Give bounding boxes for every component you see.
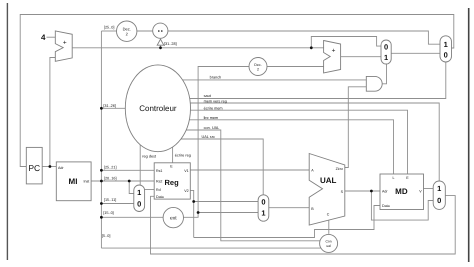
mux M1 (branch mux 0/1) xyxy=(381,40,391,64)
register PC xyxy=(26,147,42,184)
wire [25..21] to Reg Rs1 xyxy=(101,169,154,171)
svg-text:Data: Data xyxy=(382,204,390,208)
wire D2 to adder A2 bottom input xyxy=(267,66,324,68)
wire V2 to MD Data xyxy=(194,206,380,238)
wire Reg V1 to UAL A xyxy=(190,169,309,171)
wire Zero flag to AND gate xyxy=(345,87,367,168)
wire mux M3 output to Reg Rd xyxy=(145,189,155,191)
svg-text:0: 0 xyxy=(437,196,441,205)
junction bus [25..21] xyxy=(100,169,103,172)
svg-text:+: + xyxy=(63,40,67,47)
svg-text:Adr: Adr xyxy=(382,189,388,193)
junction [20..16] to mux M3 xyxy=(128,180,131,183)
wire ext up to shift circle D2 xyxy=(184,67,250,218)
svg-text:[5..0]: [5..0] xyxy=(102,234,110,238)
svg-text:2: 2 xyxy=(257,67,259,71)
wire reg-dest control to mux M3 select xyxy=(139,110,141,185)
wire UAL S bypass to mux M5 input 0 xyxy=(371,191,433,220)
svg-text:Controleur: Controleur xyxy=(139,104,177,113)
wire mux M1 output to mux M2 input 0 xyxy=(391,52,440,54)
ALU control circle Con UAL xyxy=(320,234,338,252)
instruction memory MI xyxy=(56,162,91,201)
svg-text:MD: MD xyxy=(395,187,408,196)
wire adder A2 output to mux M1 input 1 xyxy=(341,56,381,58)
wire ext to mux M4 input 1 xyxy=(198,212,258,214)
svg-text:Dec.: Dec. xyxy=(254,63,261,67)
svg-text:1: 1 xyxy=(384,53,388,62)
wire D1 to concat circle xyxy=(137,30,153,32)
svg-text:[15..0]: [15..0] xyxy=(103,211,114,215)
svg-text:mem vers reg: mem vers reg xyxy=(204,99,227,103)
svg-text:V1: V1 xyxy=(184,169,188,173)
svg-text:[20..16]: [20..16] xyxy=(104,176,117,180)
AND gate xyxy=(366,76,382,91)
wire PC+4 jog into mux M1 input 0 xyxy=(311,37,381,48)
junction PC+4 at mux jog xyxy=(310,46,313,49)
svg-text:0: 0 xyxy=(137,199,141,208)
svg-text:branch: branch xyxy=(210,76,222,80)
svg-text:[15..11]: [15..11] xyxy=(104,198,116,202)
wire stub into triangle [31..28] xyxy=(160,45,162,48)
mux M4 (UAL src 0/1) xyxy=(258,195,269,221)
wire ecrire-mem control to MD E xyxy=(158,110,408,174)
wire UAL S to MD Adr xyxy=(345,190,380,192)
svg-text:0: 0 xyxy=(261,197,265,206)
junction bus [15..0] xyxy=(100,216,103,219)
svg-text:écrire reg: écrire reg xyxy=(175,154,191,158)
svg-text:Rs1: Rs1 xyxy=(156,169,162,173)
svg-text:saut: saut xyxy=(204,94,212,98)
junction UAL S branch xyxy=(370,190,373,193)
svg-text:Inst: Inst xyxy=(84,180,90,184)
wire branch control to AND gate xyxy=(158,79,366,81)
svg-text:PC: PC xyxy=(28,163,40,173)
svg-text:lire mem: lire mem xyxy=(204,116,219,120)
svg-text:Zéro: Zéro xyxy=(336,167,343,171)
svg-text:ual: ual xyxy=(326,244,331,248)
wire [31..26] opcode into Controleur xyxy=(101,107,140,109)
svg-text:Reg: Reg xyxy=(165,178,180,187)
data memory MD xyxy=(380,174,424,210)
wire constant 4 into adder A1 xyxy=(47,36,56,38)
junction bus [15..11] xyxy=(100,202,103,205)
svg-text:[25..0]: [25..0] xyxy=(104,25,115,29)
junction PC+4 at triangle tap xyxy=(159,46,162,49)
svg-text:+: + xyxy=(332,48,336,55)
svg-text:L: L xyxy=(393,176,395,180)
svg-text:[25..21]: [25..21] xyxy=(104,166,117,170)
wire PC to adder A1 bottom input xyxy=(50,58,56,167)
wire instruction bus vertical xyxy=(100,31,102,248)
wire Reg V2 down xyxy=(190,190,193,237)
shift-left-2 circle D1 xyxy=(117,21,137,41)
wire jump address to mux M2 input 1 xyxy=(168,31,440,44)
svg-text:0: 0 xyxy=(444,50,448,59)
svg-text:Data: Data xyxy=(156,195,164,199)
page edge left xyxy=(6,3,8,260)
wire [20..16] branch to mux M3 input 1 xyxy=(129,181,134,194)
adder A1 (PC+4) xyxy=(55,31,72,61)
wire mem-vers-reg control to mux M5 select xyxy=(158,103,439,181)
svg-text:4: 4 xyxy=(41,33,46,42)
controller Controleur xyxy=(125,65,190,152)
adder A2 (branch target) xyxy=(324,41,341,74)
wire PC to MI Adr xyxy=(42,166,56,168)
svg-text:Rs2: Rs2 xyxy=(156,180,162,184)
junction V2 branch xyxy=(192,200,195,203)
svg-text:0: 0 xyxy=(384,43,388,52)
junction bus [31..26] xyxy=(100,107,103,110)
svg-text:1: 1 xyxy=(437,184,441,193)
mux M5 (mem vers reg 1/0) xyxy=(433,181,445,209)
svg-text:MI: MI xyxy=(69,177,78,186)
page edge right xyxy=(468,8,470,262)
svg-text:V2: V2 xyxy=(184,189,188,193)
wire [25..0] to shift circle D1 xyxy=(101,30,116,32)
svg-text:1: 1 xyxy=(137,188,141,197)
junction PC output xyxy=(49,165,52,168)
wire con-UAL control to ALU control circle xyxy=(158,130,321,241)
svg-text:Rd: Rd xyxy=(156,188,161,192)
svg-text:con. UAL: con. UAL xyxy=(204,126,220,130)
register file Reg xyxy=(154,163,190,199)
wire newPC loop: mux2 output to PC input xyxy=(20,15,454,167)
mux M2 (jump mux 1/0) xyxy=(440,36,452,62)
svg-text:reg dest: reg dest xyxy=(142,154,157,158)
wire [15..0] to ext xyxy=(101,216,163,218)
ALU UAL xyxy=(309,154,345,226)
wire [5..0] funct to ALU control circle xyxy=(101,247,321,249)
wire ecrire-reg control to Reg E xyxy=(172,110,174,163)
sign extend circle ext xyxy=(163,207,183,227)
shift-left-2 circle D2 (branch) xyxy=(249,58,267,76)
wire MI Inst / [20..16] to Reg Rs2 xyxy=(91,180,154,182)
wire lire-mem control to MD L xyxy=(158,120,394,174)
wire AND gate output to mux M1 select xyxy=(382,64,386,84)
triangle tap [31..28] xyxy=(157,39,164,45)
svg-text:1: 1 xyxy=(444,40,448,49)
wire mux M4 output to UAL B xyxy=(269,207,309,209)
svg-text:1: 1 xyxy=(261,209,265,218)
junction bus [20..16] xyxy=(100,180,103,183)
wire V2 to mux M4 input 0 xyxy=(194,201,258,203)
concatenation circle xyxy=(153,23,168,38)
svg-text:écrire mem: écrire mem xyxy=(204,106,223,110)
wire saut control to mux M2 select xyxy=(158,62,446,99)
wire UAL-src control to mux M4 select xyxy=(158,139,263,195)
svg-text:UAL src: UAL src xyxy=(202,135,215,139)
svg-text:ext: ext xyxy=(170,216,177,222)
svg-text:[31..26]: [31..26] xyxy=(103,104,116,108)
svg-text:[31..28]: [31..28] xyxy=(164,42,177,46)
mux M3 (reg dest 1/0) xyxy=(134,185,145,212)
svg-text:C: C xyxy=(327,212,330,216)
wire MD V to mux M5 input 1 xyxy=(424,188,434,190)
svg-text:UAL: UAL xyxy=(320,176,337,185)
wire [15..11] to mux M3 input 0 xyxy=(101,203,133,205)
wire write-back: mux M5 output to Reg Data xyxy=(151,196,456,254)
wire ALU control circle to UAL C xyxy=(328,220,330,234)
wire PC+4 from adder A1 to adder A2 xyxy=(72,47,323,49)
junction ext branch xyxy=(197,211,200,214)
svg-text:Adr: Adr xyxy=(58,166,64,170)
